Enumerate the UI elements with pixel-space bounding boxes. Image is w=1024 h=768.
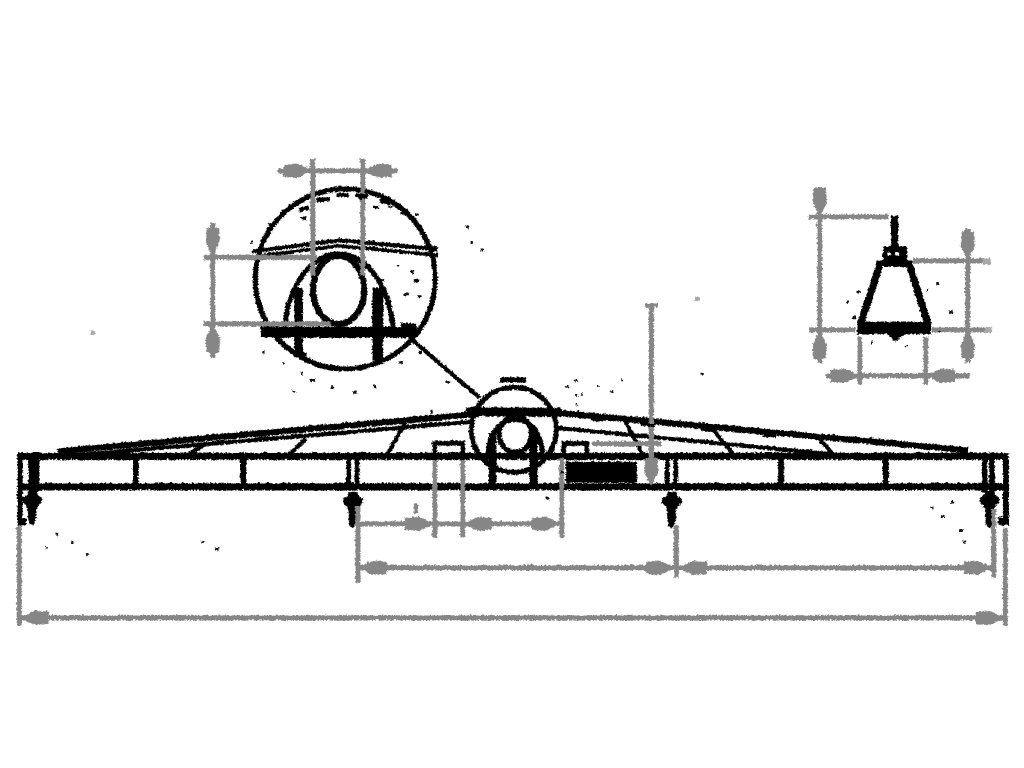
dim row1: [359, 521, 562, 526]
scan speckles: [45, 190, 965, 555]
hatch L1: [187, 443, 205, 454]
hanger web double x987: [981, 459, 987, 492]
lug hole big: [312, 255, 363, 323]
peak lower line: [253, 245, 437, 256]
chord left lower line: [66, 421, 470, 455]
detail circle small: [471, 387, 556, 472]
pin hanger x352: [342, 491, 362, 527]
ext line bar: [203, 321, 330, 326]
cone base: [857, 321, 931, 334]
stiffener divider x135: [132, 458, 138, 484]
dim row3 overall: [19, 615, 1004, 620]
ext line hole left: [310, 158, 315, 275]
stiffener divider x242: [240, 458, 246, 484]
ext cone base right: [931, 327, 990, 332]
pin hanger x31: [22, 490, 42, 525]
chord right lower line: [556, 427, 838, 454]
dim lug height: [210, 222, 215, 357]
leader line: [409, 337, 479, 397]
cone left side: [860, 264, 880, 324]
ext row1 a: [432, 459, 437, 537]
chord peak band: [465, 407, 560, 417]
chord left upper line: [57, 410, 513, 451]
ext cone top right: [912, 258, 990, 263]
lug arch small: [488, 419, 542, 455]
ext cone base edge left: [857, 336, 862, 384]
ext cone base left: [808, 327, 855, 332]
lug side bar big left: [294, 287, 303, 356]
centre ext horizontal: [592, 441, 661, 446]
scan smudges big circle: [298, 192, 421, 297]
hatch L3: [387, 419, 406, 453]
peak upper line: [252, 240, 437, 251]
gray tick x415: [413, 503, 417, 513]
ext cone stem top: [808, 214, 888, 219]
cone stem: [890, 215, 898, 248]
centre leader vertical: [648, 303, 653, 460]
hanger web double x671: [665, 459, 670, 485]
ext hanger x993: [991, 508, 996, 577]
cone rim: [876, 260, 912, 267]
ext row1 c: [559, 457, 564, 537]
dim hole width: [277, 168, 397, 173]
chord infill specks: [150, 417, 776, 448]
dim cone height: [817, 186, 822, 362]
hanger web double x352: [346, 459, 351, 485]
name plate: [565, 461, 636, 482]
cone right side: [909, 264, 928, 324]
detail circle big: [255, 188, 435, 368]
stiffener divider x779: [777, 458, 783, 484]
lug hole small: [499, 416, 531, 452]
cone collar: [883, 246, 907, 262]
ext line hole right: [360, 158, 365, 275]
ext hanger x357: [355, 505, 360, 582]
chord right upper line: [556, 412, 967, 450]
hatch L2: [288, 438, 305, 454]
ext line peak: [203, 254, 316, 259]
lug side bar small right: [529, 432, 538, 483]
ext overall left: [16, 525, 21, 625]
hatch R3: [816, 436, 835, 457]
lug side bar big right: [372, 287, 383, 360]
ext hanger x675: [673, 524, 678, 577]
hanger web left x31: [28, 459, 39, 492]
cone tip triangle: [886, 334, 904, 342]
dim row2: [357, 565, 993, 570]
hatch R1: [623, 418, 642, 455]
right end cap: [1002, 452, 1008, 522]
ext row1 b: [460, 459, 465, 537]
lug arch big: [284, 253, 393, 337]
beam bottom flange: [17, 483, 1008, 490]
dim cone body height: [965, 228, 970, 362]
left end cap: [17, 452, 23, 523]
pin hanger x671: [661, 491, 681, 527]
top chord lines: [57, 410, 967, 456]
lug side bar small left: [488, 432, 496, 483]
dash above small circle: [499, 377, 525, 382]
ext cone base edge right: [923, 336, 928, 384]
beam top flange: [17, 452, 1008, 459]
stiffener divider x884: [882, 458, 888, 484]
hatch R2: [709, 425, 734, 455]
dim cone base width: [825, 373, 969, 378]
left lug tab: [434, 443, 462, 455]
flange bar big: [260, 326, 416, 337]
ext overall right: [1002, 527, 1007, 625]
extra speckles: [292, 350, 578, 413]
right lug tab: [563, 443, 586, 455]
pin hanger x989: [979, 490, 999, 527]
